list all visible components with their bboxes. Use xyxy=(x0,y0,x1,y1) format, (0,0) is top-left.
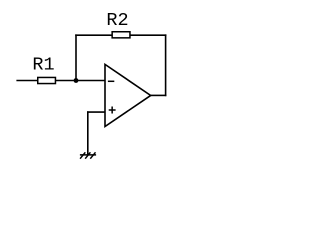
non-inverting input marker (plus) xyxy=(109,107,116,114)
wire (R2 to right corner) xyxy=(130,34,166,36)
node (junction dot) xyxy=(74,78,79,83)
op-amp U1 xyxy=(105,64,151,126)
wire (feedback top, junction to R2) xyxy=(75,34,112,36)
wire (R1 to inverting input) xyxy=(56,80,105,82)
wire (right vertical, feedback down to output) xyxy=(165,34,167,96)
resistor R2 xyxy=(112,32,130,38)
wire (non-inverting input down to ground) xyxy=(87,111,89,155)
inverting input marker (minus) xyxy=(108,80,114,82)
wire (junction up to feedback) xyxy=(75,34,77,81)
wire (non-inverting input horizontal) xyxy=(87,111,105,113)
wire (input stub to R1) xyxy=(16,80,37,82)
svg-text:R2: R2 xyxy=(106,10,128,31)
wire (op-amp output) xyxy=(151,94,167,96)
resistor R1 xyxy=(38,77,56,83)
ground xyxy=(80,152,96,158)
svg-text:R1: R1 xyxy=(32,55,54,76)
